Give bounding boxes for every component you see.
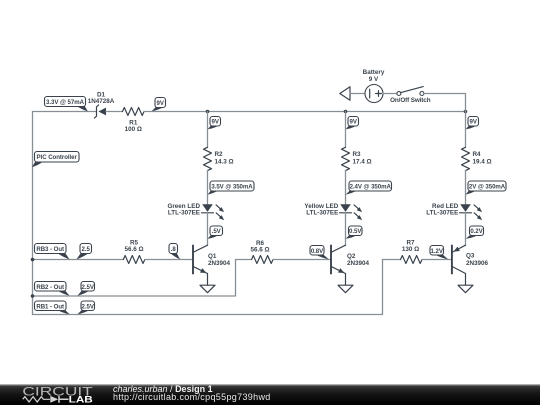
svg-text:.8: .8: [171, 246, 177, 253]
label: 9V green column: [208, 117, 221, 130]
label: 3.5V @ 350mA: [208, 181, 254, 195]
logo circuit symbol: [23, 396, 69, 403]
LED D2 green LTL-307EE: [167, 203, 224, 220]
svg-text:0.5V: 0.5V: [349, 228, 362, 235]
svg-text:RB1 - Out: RB1 - Out: [36, 303, 64, 310]
svg-text:LTL-307EE: LTL-307EE: [426, 210, 458, 217]
wire: Q3 collector to ground: [465, 274, 467, 286]
ground: battery negative (left-pointing): [340, 87, 365, 100]
LED D3 yellow LTL-307EE: [304, 203, 362, 220]
ground: Q2 emitter: [338, 285, 353, 293]
wire: green LED to Q1 collector: [207, 213, 209, 245]
svg-text:2N3904: 2N3904: [208, 260, 231, 267]
label: RB3 - Out: [35, 244, 70, 260]
resistor R6 56.6ohm: [250, 240, 273, 264]
svg-text:9 V: 9 V: [369, 76, 379, 83]
label: PIC Controller: [32, 152, 79, 168]
label: 2.4V @ 350mA: [346, 181, 392, 195]
svg-text:14.3 Ω: 14.3 Ω: [215, 159, 234, 166]
svg-text:9V: 9V: [470, 119, 478, 126]
wire: red column 9V to R4: [465, 112, 467, 148]
svg-text:17.4 Ω: 17.4 Ω: [353, 159, 372, 166]
wire: top 9V bus (R1 to switch corner): [144, 111, 466, 113]
label: RB1 - Out: [35, 301, 70, 314]
label: 9V red column: [466, 117, 479, 130]
transistor Q3 2N3906 PNP: [452, 245, 489, 273]
svg-text:http://circuitlab.com/cpq55pg7: http://circuitlab.com/cpq55pg739hwd: [113, 392, 271, 402]
label: 2.5V at RB2: [78, 282, 95, 296]
wire: R4 to red LED: [465, 171, 467, 205]
svg-text:2.4V @ 350mA: 2.4V @ 350mA: [350, 184, 392, 191]
svg-text:Q3: Q3: [466, 253, 475, 260]
svg-text:.5V: .5V: [212, 228, 222, 235]
battery V1 9V: [363, 69, 385, 102]
label: RB2 - Out: [35, 282, 70, 296]
transistor Q1 2N3904 NPN: [193, 245, 231, 273]
wire: yellow LED to Q2 collector: [345, 213, 347, 245]
svg-text:LTL-307EE: LTL-307EE: [168, 210, 200, 217]
svg-text:56.6 Ω: 56.6 Ω: [250, 246, 269, 253]
wire: left 3.3V vertical rail: [32, 112, 34, 315]
wire: red LED to Q3 emitter: [465, 213, 467, 245]
resistor R1 100ohm: [123, 108, 145, 134]
svg-text:9V: 9V: [157, 100, 165, 107]
svg-text:19.4 Ω: 19.4 Ω: [473, 159, 492, 166]
svg-text:0.2V: 0.2V: [470, 228, 483, 235]
wire: green column 9V to R2: [207, 112, 209, 148]
svg-text:RB3 - Out: RB3 - Out: [36, 246, 64, 253]
resistor R7 130ohm: [401, 240, 422, 264]
label: 9V yellow column: [346, 117, 359, 130]
svg-text:56.6 Ω: 56.6 Ω: [124, 246, 143, 253]
label: 9V at R1: [152, 98, 166, 112]
diode D1 zener 1N4728A: [88, 91, 115, 118]
transistor Q2 2N3904 NPN: [331, 245, 370, 273]
svg-text:2N3904: 2N3904: [347, 260, 370, 267]
wire: R6 to Q2 base: [273, 259, 330, 261]
svg-text:LTL-307EE: LTL-307EE: [306, 210, 338, 217]
svg-text:1N4728A: 1N4728A: [88, 98, 115, 105]
svg-text:2N3906: 2N3906: [466, 260, 489, 267]
svg-text:R3: R3: [353, 151, 362, 158]
wire: RB2 row from rail, up and to R6: [33, 260, 252, 297]
footer bar: [0, 384, 540, 385]
svg-text:R2: R2: [215, 151, 224, 158]
wire: yellow column 9V to R3: [345, 112, 347, 148]
resistor R3 17.4ohm: [342, 147, 372, 170]
wire: battery to switch: [383, 93, 397, 95]
label: 2.5V at RB1: [78, 301, 95, 314]
wire: RB1 row from rail, up and to R7: [33, 260, 401, 315]
svg-text:9V: 9V: [212, 119, 220, 126]
wire: R7 to Q3 base: [422, 259, 451, 261]
wire: R3 to yellow LED: [345, 171, 347, 205]
node: rail / RB2 junction: [31, 294, 35, 298]
label: .5V: [208, 226, 223, 239]
svg-text:0.8V: 0.8V: [311, 248, 324, 255]
label: 0.5V: [346, 226, 363, 239]
wire: Q2 emitter to ground: [345, 274, 347, 286]
svg-text:3.5V @ 350mA: 3.5V @ 350mA: [211, 184, 253, 191]
label: .8: [169, 244, 180, 260]
ground: Q1 emitter: [200, 285, 215, 293]
label: 0.2V: [466, 226, 484, 239]
wire: D1 to R1: [106, 111, 123, 113]
wire: top bus left segment (3.3V node to zener D1): [33, 111, 97, 113]
svg-text:9V: 9V: [350, 119, 358, 126]
wire: R5 to Q1 base: [145, 259, 192, 261]
label: 2V @ 350mA: [466, 181, 506, 195]
svg-text:2.5V: 2.5V: [82, 284, 95, 291]
svg-text:3.3V @ 57mA: 3.3V @ 57mA: [46, 99, 85, 106]
label: 1.2V: [430, 246, 448, 260]
svg-text:2V @ 350mA: 2V @ 350mA: [469, 184, 506, 191]
wire: R2 to green LED: [207, 171, 209, 205]
node: 9V bus / red column junction: [464, 110, 468, 114]
wire: RB3 row from rail to R5: [33, 259, 124, 261]
svg-text:PIC Controller: PIC Controller: [37, 154, 78, 161]
svg-text:100 Ω: 100 Ω: [125, 126, 142, 133]
wire: Q1 emitter to ground: [207, 274, 209, 286]
resistor R5 56.6ohm: [123, 239, 145, 263]
svg-text:130 Ω: 130 Ω: [402, 246, 419, 253]
node: 9V bus / green column junction: [206, 110, 210, 114]
label: 0.8V: [310, 246, 329, 260]
ground: Q3 collector: [458, 285, 473, 293]
label: 2.5: [77, 244, 92, 260]
svg-text:2.5: 2.5: [82, 246, 91, 253]
switch SW1 On/Off: [390, 87, 431, 104]
svg-text:RB2 - Out: RB2 - Out: [36, 284, 64, 291]
resistor R2 14.3ohm: [204, 147, 234, 170]
wire: switch to red column corner: [424, 94, 466, 112]
svg-text:2.5V: 2.5V: [82, 303, 95, 310]
label: 3.3V @ 57mA: [45, 97, 88, 112]
svg-text:On/Off Switch: On/Off Switch: [390, 97, 431, 104]
resistor R4 19.4ohm: [462, 147, 492, 170]
LED D4 red LTL-307EE: [426, 203, 482, 220]
svg-text:R4: R4: [473, 151, 482, 158]
node: 9V bus / yellow column junction: [344, 110, 348, 114]
svg-text:1.2V: 1.2V: [431, 248, 444, 255]
node: rail / RB3 junction: [31, 258, 35, 262]
svg-text:LAB: LAB: [69, 395, 94, 405]
